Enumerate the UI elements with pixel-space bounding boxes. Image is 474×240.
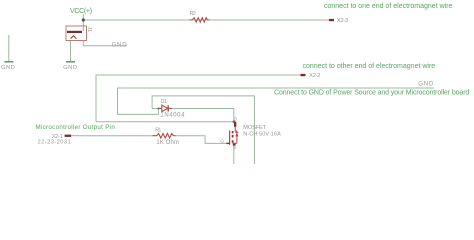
svg-text:D: D (234, 116, 238, 122)
svg-text:Connect to GND of Power Source: Connect to GND of Power Source and your … (274, 89, 469, 96)
svg-text:1K Ohm: 1K Ohm (156, 140, 179, 146)
svg-text:R2: R2 (190, 11, 196, 17)
svg-text:GND: GND (418, 81, 434, 87)
svg-text:1N4004: 1N4004 (160, 112, 185, 118)
svg-text:MOSFET: MOSFET (243, 125, 266, 131)
svg-text:X2-2: X2-2 (309, 73, 320, 79)
svg-text:R1: R1 (155, 127, 161, 133)
svg-text:X2-3: X2-3 (337, 18, 348, 24)
svg-text:S: S (233, 145, 236, 151)
svg-text:N-CH 50V 16A: N-CH 50V 16A (243, 131, 281, 137)
svg-text:D1: D1 (161, 99, 167, 105)
svg-text:GND: GND (63, 65, 78, 71)
svg-text:VCC(+): VCC(+) (70, 8, 92, 15)
svg-text:G: G (220, 139, 224, 145)
svg-text:connect to one end of electrom: connect to one end of electromagnet wire (324, 3, 453, 10)
svg-text:J1: J1 (86, 27, 92, 33)
svg-text:GND: GND (112, 43, 128, 49)
svg-text:22-23-2031: 22-23-2031 (38, 140, 72, 146)
svg-text:Microcontroller Output Pin: Microcontroller Output Pin (36, 124, 116, 131)
svg-text:connect to other end of electr: connect to other end of electromagnet wi… (303, 63, 436, 70)
svg-text:GND: GND (1, 65, 16, 71)
